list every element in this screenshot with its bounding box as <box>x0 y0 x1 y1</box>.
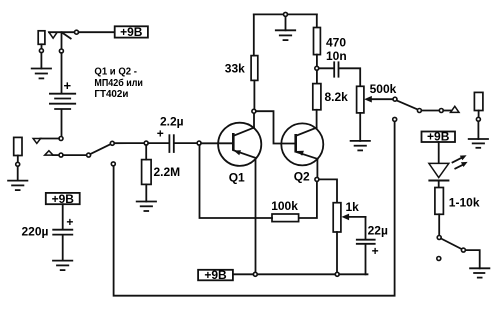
label box +9V (left) <box>46 192 80 206</box>
transistor Q2 <box>281 123 323 165</box>
wire <box>339 273 365 275</box>
ground <box>469 268 490 277</box>
switch SA4 lever <box>441 239 462 250</box>
potentiometer R8 1k <box>333 203 341 232</box>
label box +9V (bottom) <box>198 268 233 282</box>
resistor (right plug) <box>474 92 483 110</box>
wire <box>40 138 59 140</box>
contact <box>439 109 443 113</box>
resistor R2 33k <box>251 56 258 81</box>
node <box>284 12 288 16</box>
label box +9V (top-left) <box>115 25 148 39</box>
switch SA1 lever <box>62 33 70 39</box>
wire <box>316 70 318 83</box>
potentiometer R5 500k <box>357 86 364 113</box>
wire <box>438 214 440 235</box>
svg-text:ГТ402и: ГТ402и <box>94 89 128 100</box>
node <box>16 162 20 166</box>
contact <box>393 117 397 121</box>
node C <box>315 66 319 70</box>
switch SA1 contact <box>75 30 79 34</box>
wire <box>61 32 63 49</box>
ground <box>275 30 296 40</box>
wire <box>62 204 64 229</box>
wire <box>257 273 335 275</box>
switch SA3 contact <box>417 109 421 113</box>
wire <box>366 245 368 274</box>
svg-text:1-10k: 1-10k <box>449 196 480 210</box>
node D (Q2 emitter) <box>315 177 319 181</box>
capacitor C1 2.2u <box>169 134 173 153</box>
switch SA2 contact <box>87 153 91 157</box>
connector X4 (output) <box>451 106 460 112</box>
svg-text:100k: 100k <box>271 199 298 213</box>
wire <box>17 166 19 180</box>
node on signal line <box>110 141 114 145</box>
wire <box>148 142 168 144</box>
switch SA4 lower contact <box>437 257 441 261</box>
resistor R3 470 <box>314 28 321 55</box>
wire (+9V rail) <box>233 273 253 275</box>
wire <box>201 142 232 144</box>
wire <box>63 154 87 156</box>
svg-text:+: + <box>372 244 379 258</box>
wire <box>145 184 147 201</box>
wire <box>316 55 318 67</box>
resistor (input plug, left) <box>14 137 22 155</box>
svg-text:8.2k: 8.2k <box>325 90 349 104</box>
wire <box>465 250 479 268</box>
wire (to R7 right end) <box>299 181 317 218</box>
ground <box>52 261 73 271</box>
svg-text:Q1: Q1 <box>229 171 245 185</box>
node A (Q1 base) <box>197 141 201 145</box>
wire (1k bottom) <box>336 232 338 272</box>
wire <box>41 44 43 48</box>
wire <box>477 121 479 139</box>
svg-text:Q1 и Q2 -: Q1 и Q2 - <box>94 66 136 77</box>
svg-text:+9В: +9В <box>204 268 227 282</box>
svg-text:+: + <box>157 126 164 140</box>
wire (to node A) <box>200 145 273 218</box>
wire <box>17 156 19 163</box>
svg-text:22µ: 22µ <box>368 223 388 237</box>
wire (ground stem) <box>285 16 287 30</box>
wire (signal line) <box>114 142 144 144</box>
wire <box>288 13 317 15</box>
connector X3 (input) <box>45 151 53 155</box>
svg-text:500k: 500k <box>370 82 397 96</box>
switch SA3 contact <box>393 97 397 101</box>
capacitor C2 10n <box>334 61 338 77</box>
wire <box>61 53 63 93</box>
battery GB1 <box>49 94 76 109</box>
svg-text:2.2M: 2.2M <box>154 165 181 179</box>
wire (Q1 collector) <box>253 113 255 128</box>
ground <box>136 202 157 212</box>
note text <box>94 66 142 100</box>
wire <box>53 154 59 156</box>
resistor R7 100k <box>272 214 299 222</box>
wire <box>316 14 318 27</box>
node on +9V rail <box>253 272 257 276</box>
wire (top rail) <box>254 13 284 15</box>
capacitor C3 22u <box>356 240 376 244</box>
wire <box>443 110 450 112</box>
wire (Q1 emitter) <box>255 158 257 272</box>
node <box>144 141 148 145</box>
wire <box>175 142 197 144</box>
node <box>59 49 63 53</box>
wire <box>49 31 75 33</box>
svg-text:33k: 33k <box>225 62 245 76</box>
switch SA4 contact <box>461 248 465 252</box>
connector X1 (top-left power jack) <box>49 32 57 38</box>
node B <box>252 109 256 113</box>
wire <box>79 31 115 33</box>
connector X2 <box>33 139 41 144</box>
label box +9V (right) <box>422 130 456 144</box>
switch SA3 lever <box>397 100 418 109</box>
contact <box>59 153 63 157</box>
wire <box>40 53 42 69</box>
wire <box>339 68 360 86</box>
node <box>59 137 63 141</box>
svg-text:+: + <box>66 215 73 229</box>
wire <box>319 67 334 69</box>
ground <box>468 139 489 148</box>
resistor R1 2.2M <box>142 160 152 185</box>
wire <box>359 113 361 141</box>
svg-text:220µ: 220µ <box>22 224 49 238</box>
wire <box>61 110 63 137</box>
switch SA4 contact <box>437 236 441 240</box>
LED arrows <box>453 155 468 168</box>
svg-text:10n: 10n <box>326 49 347 63</box>
wire <box>478 111 480 118</box>
switch SA2 lever <box>90 144 110 154</box>
ground <box>7 181 28 191</box>
svg-text:МП42б или: МП42б или <box>94 77 142 89</box>
node <box>476 117 480 121</box>
ground <box>350 141 371 151</box>
wiper arrow <box>342 214 366 221</box>
wire <box>62 236 64 261</box>
wire <box>421 110 439 112</box>
ground <box>31 69 52 79</box>
capacitor C4 220u <box>52 230 73 235</box>
svg-text:+: + <box>64 78 72 93</box>
svg-text:470: 470 <box>326 35 346 49</box>
wire (Q2 collector) <box>316 110 318 128</box>
svg-text:+9В: +9В <box>120 25 143 39</box>
LED D1 <box>428 163 449 180</box>
switch SA2 lower contact <box>111 162 115 166</box>
wire <box>438 142 440 163</box>
wiper arrow <box>364 96 393 103</box>
wire (bottom bus) <box>114 121 395 295</box>
svg-text:1k: 1k <box>346 200 360 214</box>
wire <box>253 14 255 55</box>
resistor R6 1-10k <box>435 188 444 215</box>
wire (node D to R8) <box>319 179 337 202</box>
wire (Q2 emitter) <box>316 159 318 178</box>
transistor Q1 <box>218 123 261 166</box>
wire <box>438 181 440 188</box>
wire <box>253 80 255 109</box>
node on rail <box>335 272 339 276</box>
node <box>39 49 43 53</box>
resistor R4 8.2k <box>313 84 321 110</box>
wire <box>365 217 367 239</box>
resistor (top-left plug) <box>38 31 45 45</box>
wire <box>145 145 147 160</box>
wire (node B to Q2 base) <box>256 111 295 143</box>
svg-text:Q2: Q2 <box>294 170 310 184</box>
